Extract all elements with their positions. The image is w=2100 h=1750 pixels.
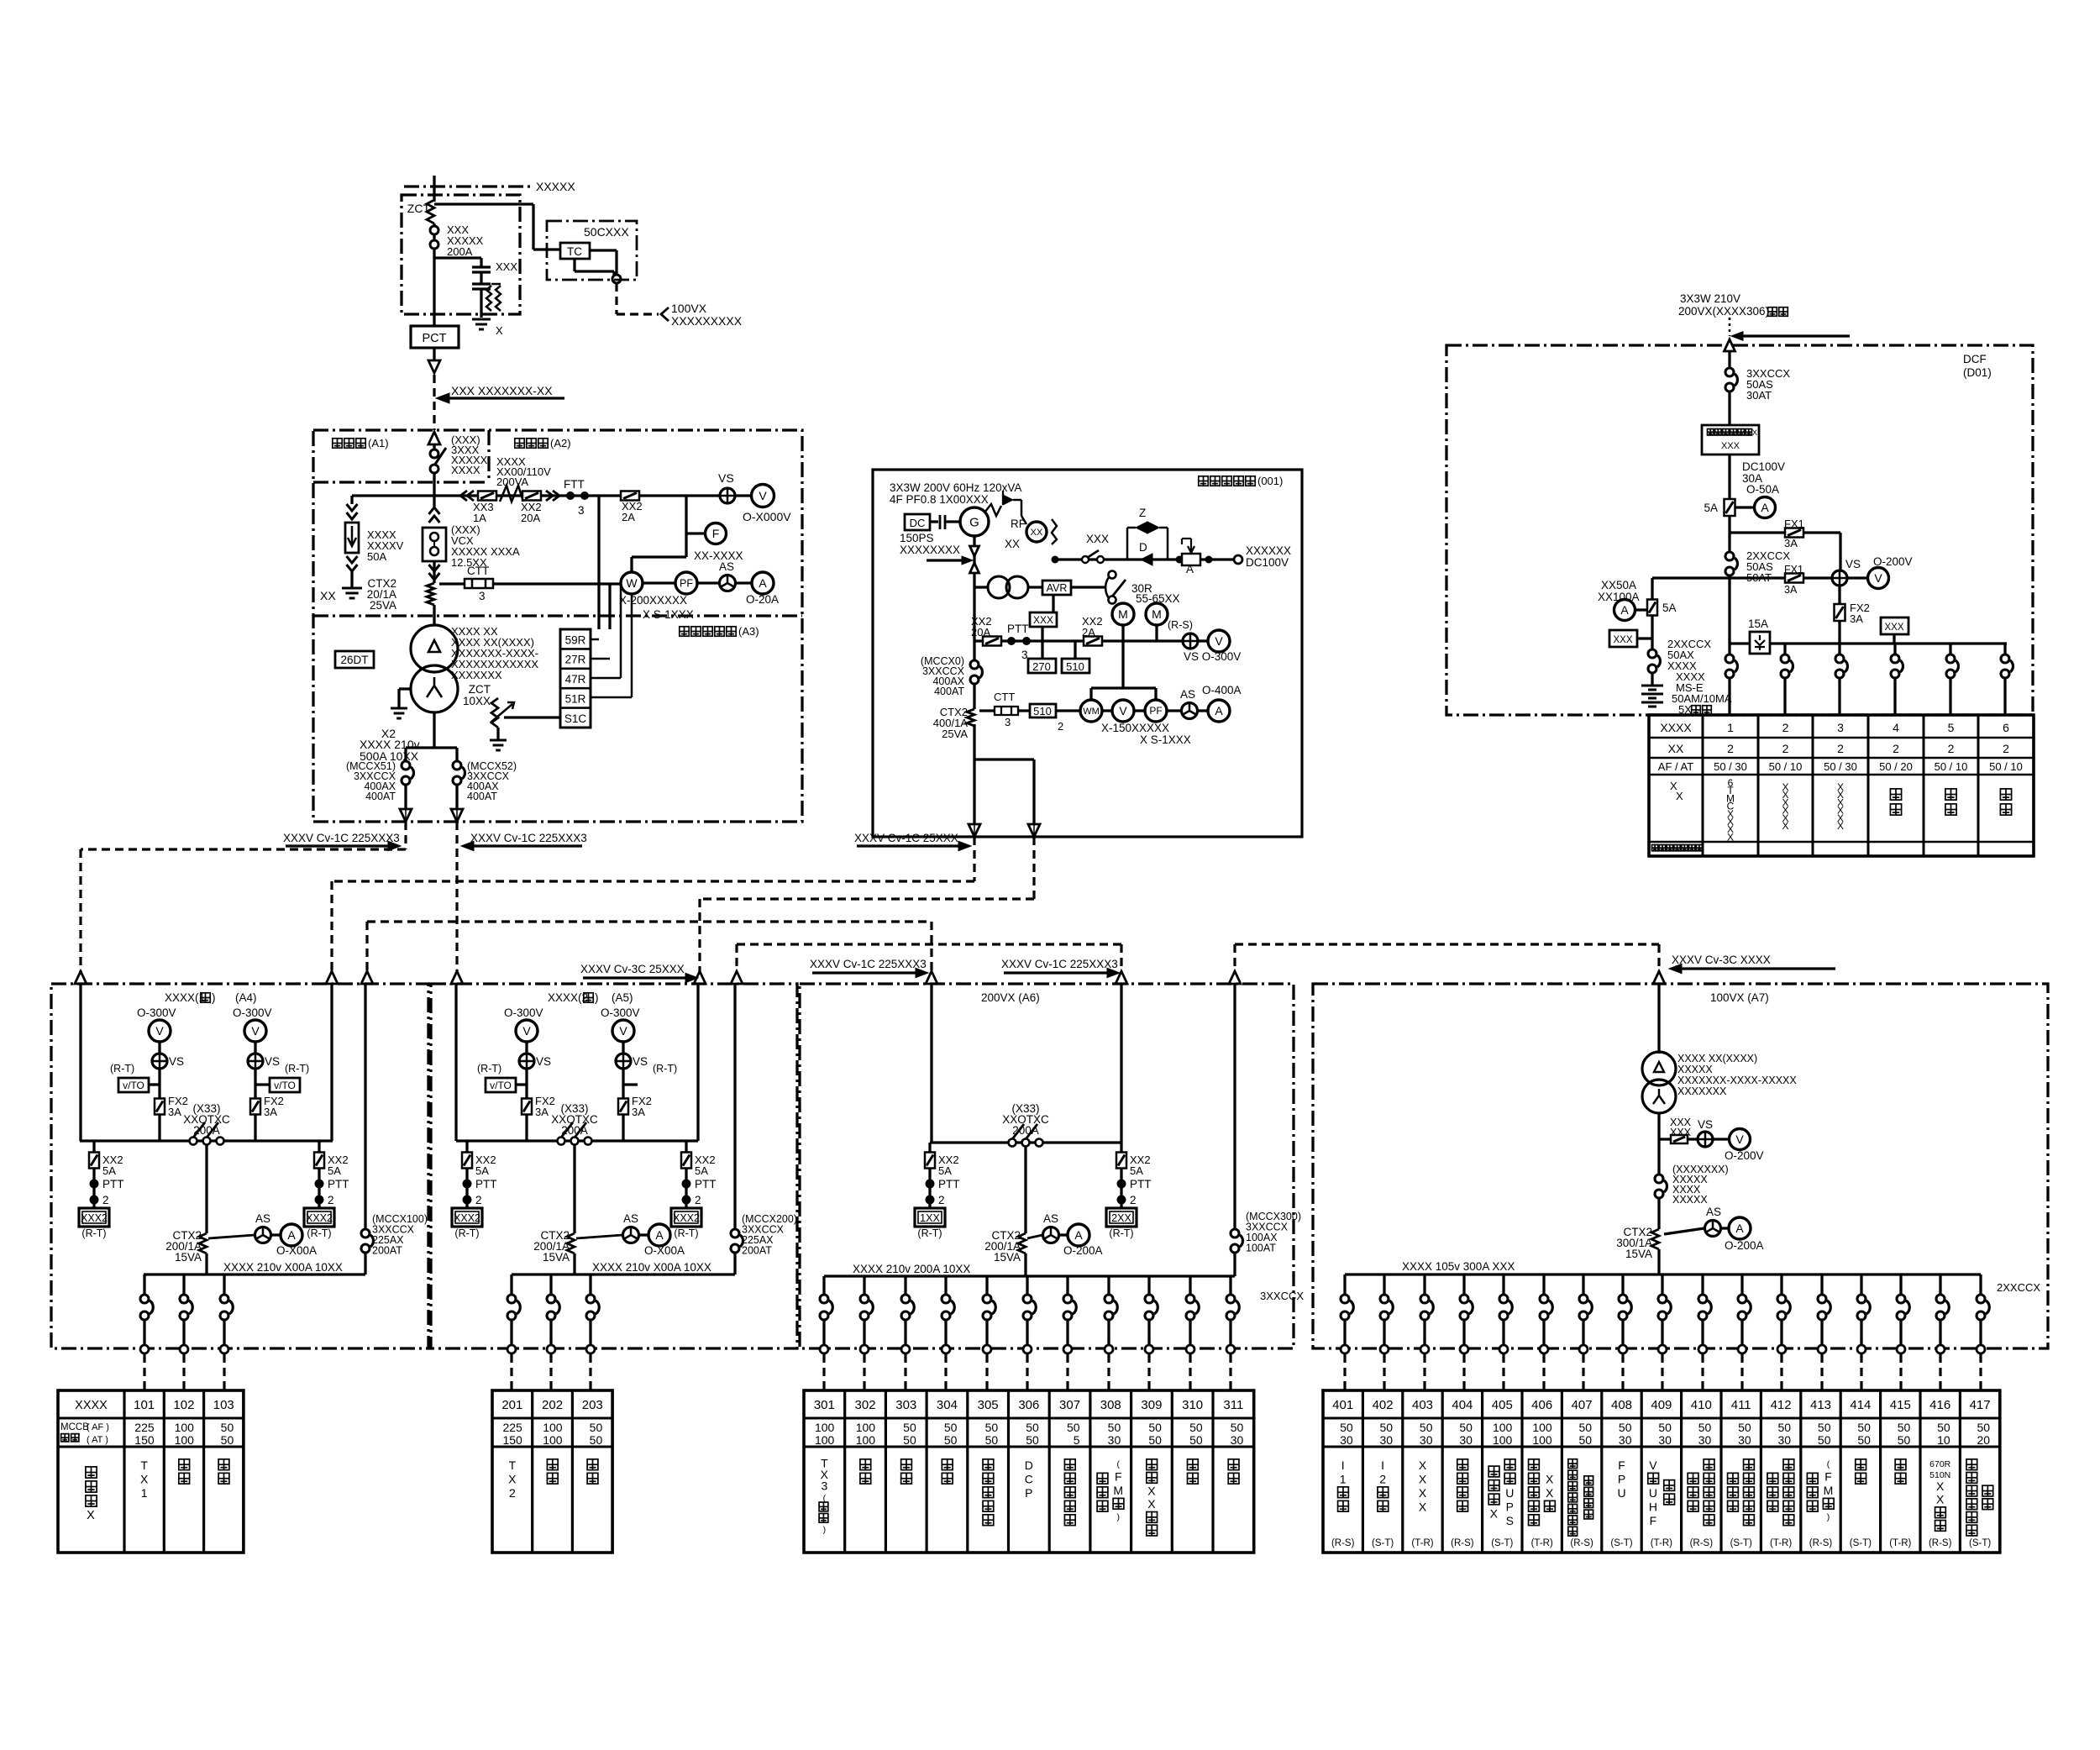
svg-text:XXXXXXXX: XXXXXXXX <box>900 544 960 556</box>
svg-text:5A: 5A <box>475 1164 489 1177</box>
svg-text:1: 1 <box>141 1486 148 1500</box>
svg-text:100: 100 <box>815 1421 835 1434</box>
svg-text:30: 30 <box>1619 1433 1632 1447</box>
svg-text:XXXV Cv-1C 225XXX3: XXXV Cv-1C 225XXX3 <box>1001 958 1118 970</box>
svg-text:V: V <box>522 1024 531 1038</box>
svg-text:5A: 5A <box>328 1164 341 1177</box>
svg-text:XXXV Cv-1C 225XXX3: XXXV Cv-1C 225XXX3 <box>810 958 927 970</box>
svg-text:30: 30 <box>1231 1433 1244 1447</box>
svg-text:X: X <box>1546 1472 1554 1485</box>
svg-text:): ) <box>823 1525 827 1535</box>
svg-text:I: I <box>1341 1458 1345 1472</box>
svg-text:406: 406 <box>1531 1398 1552 1412</box>
svg-text:F: F <box>1618 1458 1625 1472</box>
svg-text:ZCT: ZCT <box>407 202 431 215</box>
svg-text:51R: 51R <box>565 693 586 706</box>
svg-text:CTT: CTT <box>467 565 489 577</box>
svg-text:307: 307 <box>1059 1398 1080 1412</box>
svg-text:50: 50 <box>1977 1421 1991 1434</box>
svg-text:50: 50 <box>1658 1421 1672 1434</box>
svg-text:100: 100 <box>1493 1421 1513 1434</box>
svg-text:50: 50 <box>944 1433 958 1447</box>
svg-text:U: U <box>1505 1486 1514 1500</box>
svg-text:3: 3 <box>1837 721 1844 734</box>
svg-text:50: 50 <box>1026 1433 1039 1447</box>
svg-text:(S-T): (S-T) <box>1730 1538 1752 1548</box>
svg-text:A: A <box>655 1228 664 1242</box>
svg-text:(R-S): (R-S) <box>1929 1538 1952 1548</box>
svg-text:O-200A: O-200A <box>1063 1244 1103 1257</box>
svg-text:): ) <box>595 991 599 1004</box>
svg-text:XX: XX <box>1031 528 1043 538</box>
svg-text:50: 50 <box>1738 1421 1751 1434</box>
svg-text:100: 100 <box>856 1421 876 1434</box>
svg-text:50: 50 <box>1148 1433 1162 1447</box>
svg-text:15A: 15A <box>1748 617 1768 630</box>
svg-text:P: P <box>1025 1486 1032 1500</box>
svg-text:O-300V: O-300V <box>601 1006 640 1019</box>
svg-text:v/TO: v/TO <box>274 1080 296 1091</box>
svg-text:2: 2 <box>1837 742 1844 755</box>
svg-text:50: 50 <box>1778 1421 1792 1434</box>
svg-text:PTT: PTT <box>102 1178 124 1190</box>
svg-text:(T-R): (T-R) <box>1770 1538 1792 1548</box>
svg-text:V: V <box>1215 634 1223 648</box>
svg-text:30: 30 <box>1738 1433 1751 1447</box>
svg-text:XXXV Cv-1C 225XXX3: XXXV Cv-1C 225XXX3 <box>283 832 400 844</box>
svg-text:MCCB: MCCB <box>60 1422 89 1432</box>
svg-text:DCF: DCF <box>1963 353 1987 365</box>
svg-text:V: V <box>1649 1458 1657 1472</box>
svg-text:2: 2 <box>102 1194 109 1206</box>
svg-text:XXXXX: XXXXX <box>536 180 575 193</box>
svg-text:XX100A: XX100A <box>1598 591 1640 603</box>
svg-text:X S-1XXX: X S-1XXX <box>1140 733 1191 746</box>
svg-text:PF: PF <box>680 577 693 589</box>
svg-text:100: 100 <box>175 1421 195 1434</box>
svg-text:XXXXXX: XXXXXX <box>1246 544 1291 557</box>
svg-text:59R: 59R <box>565 633 586 646</box>
svg-text:416: 416 <box>1929 1398 1950 1412</box>
svg-text:310: 310 <box>1182 1398 1203 1412</box>
svg-text:(R-S): (R-S) <box>1451 1538 1474 1548</box>
svg-text:50: 50 <box>1108 1421 1121 1434</box>
svg-text:O-300V: O-300V <box>504 1006 543 1019</box>
svg-text:v/TO: v/TO <box>123 1080 144 1091</box>
svg-text:PTT: PTT <box>1130 1178 1152 1190</box>
svg-text:50: 50 <box>1937 1421 1950 1434</box>
svg-text:670R: 670R <box>1929 1459 1951 1469</box>
svg-text:4F PF0.8 1X00XXX: 4F PF0.8 1X00XXX <box>890 493 989 506</box>
svg-text:XXXX(1: XXXX(1 <box>165 991 205 1004</box>
svg-text:3A: 3A <box>1784 537 1798 549</box>
svg-text:F: F <box>1115 1469 1122 1483</box>
svg-text:(R-T): (R-T) <box>81 1227 106 1239</box>
svg-text:XXXX XX(XXXX): XXXX XX(XXXX) <box>1677 1053 1757 1064</box>
svg-text:XXXXXXX-XXXX-XXXXX: XXXXXXX-XXXX-XXXXX <box>1677 1075 1797 1086</box>
svg-text:5A: 5A <box>1704 502 1718 514</box>
svg-text:(T-R): (T-R) <box>1411 1538 1433 1548</box>
svg-text:3A: 3A <box>168 1106 181 1118</box>
svg-text:O-200A: O-200A <box>1725 1239 1764 1252</box>
svg-text:200VA: 200VA <box>496 476 528 488</box>
svg-text:X: X <box>1727 831 1734 843</box>
svg-text:10: 10 <box>1937 1433 1950 1447</box>
svg-text:X-200XXXXX: X-200XXXXX <box>619 594 687 607</box>
svg-text:100: 100 <box>1493 1433 1513 1447</box>
svg-text:30: 30 <box>1340 1433 1353 1447</box>
svg-text:M: M <box>1824 1484 1834 1497</box>
svg-text:F: F <box>1824 1469 1832 1483</box>
svg-text:XXX: XXX <box>496 260 517 273</box>
svg-text:2XXCCX: 2XXCCX <box>1997 1281 2040 1294</box>
svg-text:403: 403 <box>1412 1398 1433 1412</box>
svg-text:AS: AS <box>623 1212 638 1225</box>
svg-text:(T-R): (T-R) <box>1531 1538 1553 1548</box>
svg-text:27R: 27R <box>565 654 586 666</box>
svg-text:2A: 2A <box>1082 626 1095 639</box>
svg-text:3A: 3A <box>264 1106 277 1118</box>
svg-text:(R-T): (R-T) <box>454 1227 479 1239</box>
svg-text:202: 202 <box>542 1398 563 1412</box>
svg-text:Z: Z <box>1139 507 1146 519</box>
svg-text:5: 5 <box>1074 1433 1080 1447</box>
svg-text:20A: 20A <box>521 512 540 524</box>
svg-text:XXXXX: XXXXX <box>1672 1194 1708 1206</box>
svg-text:26DT: 26DT <box>340 654 368 666</box>
svg-text:2: 2 <box>1948 742 1955 755</box>
svg-text:XXXX 105v 300A XXX: XXXX 105v 300A XXX <box>1402 1260 1515 1273</box>
svg-text:2: 2 <box>1782 742 1789 755</box>
svg-text:(R-S): (R-S) <box>1331 1538 1355 1548</box>
svg-text:A: A <box>287 1228 296 1242</box>
svg-text:O-200V: O-200V <box>1725 1149 1764 1162</box>
svg-text:(A5): (A5) <box>612 991 633 1004</box>
svg-text:50 / 30: 50 / 30 <box>1714 760 1747 773</box>
svg-text:50: 50 <box>1067 1421 1080 1434</box>
svg-text:55-65XX: 55-65XX <box>1136 592 1180 605</box>
svg-text:S: S <box>1506 1514 1514 1527</box>
svg-text:PTT: PTT <box>695 1178 717 1190</box>
svg-text:50: 50 <box>1579 1421 1593 1434</box>
svg-text:100: 100 <box>175 1433 195 1447</box>
svg-text:A: A <box>1761 501 1769 514</box>
svg-text:(R-T): (R-T) <box>917 1227 942 1239</box>
svg-text:303: 303 <box>895 1398 916 1412</box>
svg-text:(R-T): (R-T) <box>1109 1227 1133 1239</box>
svg-text:O-20A: O-20A <box>746 593 779 606</box>
svg-text:309: 309 <box>1141 1398 1162 1412</box>
svg-text:50: 50 <box>1380 1421 1394 1434</box>
svg-text:XX50A: XX50A <box>1601 579 1636 591</box>
svg-text:100: 100 <box>1532 1421 1552 1434</box>
svg-text:304: 304 <box>937 1398 958 1412</box>
svg-text:O-X00A: O-X00A <box>644 1244 685 1257</box>
svg-text:U: U <box>1617 1486 1625 1500</box>
svg-text:X: X <box>1936 1479 1945 1493</box>
svg-text:PCT: PCT <box>423 332 447 345</box>
svg-text:(T-R): (T-R) <box>1889 1538 1911 1548</box>
svg-text:X: X <box>508 1472 517 1485</box>
svg-text:I: I <box>1381 1458 1384 1472</box>
svg-text:XXX2: XXX2 <box>673 1212 700 1224</box>
svg-text:A: A <box>1735 1222 1744 1235</box>
svg-text:417: 417 <box>1970 1398 1991 1412</box>
svg-text:VS: VS <box>169 1055 184 1068</box>
svg-text:(R-T): (R-T) <box>285 1063 309 1075</box>
svg-text:400AT: 400AT <box>934 686 964 697</box>
svg-text:15VA: 15VA <box>543 1251 570 1264</box>
svg-text:W: W <box>626 576 638 590</box>
svg-text:( AF ): ( AF ) <box>87 1422 109 1432</box>
svg-text:XXXX: XXXX <box>451 464 480 476</box>
svg-text:5A: 5A <box>938 1164 952 1177</box>
svg-text:A: A <box>1215 704 1223 717</box>
svg-text:O-400A: O-400A <box>1202 684 1242 696</box>
svg-text:1XX: 1XX <box>920 1212 940 1224</box>
svg-text:3: 3 <box>821 1479 827 1492</box>
svg-text:308: 308 <box>1100 1398 1121 1412</box>
svg-text:V: V <box>1735 1133 1744 1146</box>
svg-text:(R-T): (R-T) <box>653 1063 677 1075</box>
svg-text:150PS: 150PS <box>900 532 934 544</box>
svg-text:301: 301 <box>814 1398 835 1412</box>
svg-text:D: D <box>1139 541 1147 554</box>
svg-text:410: 410 <box>1691 1398 1712 1412</box>
svg-text:100: 100 <box>815 1433 835 1447</box>
svg-text:PTT: PTT <box>328 1178 349 1190</box>
svg-text:XXX: XXX <box>1721 441 1740 451</box>
svg-text:XXXXXXX: XXXXXXX <box>1677 1085 1727 1097</box>
svg-text:3X3W 200V 60Hz 120xVA: 3X3W 200V 60Hz 120xVA <box>890 481 1021 494</box>
svg-text:50: 50 <box>1189 1421 1203 1434</box>
svg-text:50: 50 <box>944 1421 958 1434</box>
svg-text:TC: TC <box>567 245 582 258</box>
svg-text:50: 50 <box>1898 1433 1911 1447</box>
svg-text:O-300V: O-300V <box>137 1006 176 1019</box>
svg-text:50: 50 <box>1619 1421 1632 1434</box>
svg-text:DC100V: DC100V <box>1742 460 1785 473</box>
svg-text:2: 2 <box>695 1194 701 1206</box>
svg-text:100: 100 <box>543 1433 563 1447</box>
svg-text:510: 510 <box>1033 705 1052 717</box>
svg-text:20: 20 <box>1977 1433 1991 1447</box>
svg-text:1: 1 <box>1727 721 1734 734</box>
svg-text:VS: VS <box>1845 558 1861 570</box>
svg-text:200A: 200A <box>561 1124 588 1137</box>
svg-text:V: V <box>759 489 767 502</box>
svg-text:V: V <box>619 1024 627 1038</box>
svg-text:AF / AT: AF / AT <box>1658 760 1693 773</box>
svg-text:50 / 20: 50 / 20 <box>1879 760 1913 773</box>
svg-text:(R-T): (R-T) <box>110 1063 134 1075</box>
svg-text:50: 50 <box>985 1433 999 1447</box>
svg-text:H: H <box>1649 1500 1657 1513</box>
svg-text:100VX (A7): 100VX (A7) <box>1710 991 1769 1004</box>
svg-text:103: 103 <box>213 1398 234 1412</box>
svg-text:X: X <box>1419 1458 1427 1472</box>
svg-text:P: P <box>1618 1472 1625 1485</box>
svg-text:50 / 10: 50 / 10 <box>1989 760 2023 773</box>
svg-text:405: 405 <box>1492 1398 1513 1412</box>
svg-text:20A: 20A <box>971 626 990 639</box>
svg-text:50: 50 <box>221 1421 234 1434</box>
svg-text:50: 50 <box>1857 1421 1871 1434</box>
svg-text:2: 2 <box>1782 721 1789 734</box>
svg-text:(D01): (D01) <box>1963 366 1992 379</box>
svg-text:401: 401 <box>1332 1398 1353 1412</box>
svg-text:XX: XX <box>1668 742 1684 755</box>
svg-text:3: 3 <box>578 504 585 517</box>
svg-text:407: 407 <box>1572 1398 1593 1412</box>
svg-text:XX: XX <box>1005 538 1020 550</box>
svg-text:200AT: 200AT <box>742 1245 772 1257</box>
svg-text:404: 404 <box>1452 1398 1473 1412</box>
svg-text:VS: VS <box>718 471 734 485</box>
svg-text:XX: XX <box>320 589 336 602</box>
svg-text:50: 50 <box>1818 1433 1831 1447</box>
svg-text:414: 414 <box>1850 1398 1871 1412</box>
svg-text:100VX: 100VX <box>671 302 707 315</box>
svg-text:5A: 5A <box>1662 602 1677 614</box>
svg-text:30: 30 <box>1108 1433 1121 1447</box>
svg-text:50: 50 <box>1579 1433 1593 1447</box>
svg-text:200A: 200A <box>193 1124 220 1137</box>
svg-text:(A1): (A1) <box>368 437 389 449</box>
svg-text:150: 150 <box>134 1433 155 1447</box>
svg-text:XXX: XXX <box>1086 533 1109 545</box>
svg-text:(R-S): (R-S) <box>1168 619 1193 631</box>
svg-text:50: 50 <box>1189 1433 1203 1447</box>
svg-text:200AT: 200AT <box>372 1245 402 1257</box>
svg-text:V: V <box>1874 571 1882 585</box>
svg-text:30AT: 30AT <box>1746 389 1772 402</box>
svg-text:5A: 5A <box>1130 1164 1143 1177</box>
svg-text:100: 100 <box>1532 1433 1552 1447</box>
svg-text:AS: AS <box>1180 688 1195 701</box>
svg-text:): ) <box>212 991 216 1004</box>
svg-text:S1C: S1C <box>564 712 587 725</box>
svg-text:50: 50 <box>1898 1421 1911 1434</box>
svg-text:XXXX: XXXX <box>75 1399 108 1412</box>
svg-text:(S-T): (S-T) <box>1850 1538 1872 1548</box>
svg-text:U: U <box>1649 1486 1657 1500</box>
svg-text:3A: 3A <box>632 1106 645 1118</box>
svg-text:O-300V: O-300V <box>233 1006 272 1019</box>
svg-text:(A2): (A2) <box>550 437 571 449</box>
svg-text:(R-T): (R-T) <box>674 1227 698 1239</box>
svg-text:X: X <box>1147 1485 1156 1498</box>
svg-text:XXX: XXX <box>1670 1127 1692 1138</box>
svg-text:50: 50 <box>1459 1421 1473 1434</box>
svg-text:X: X <box>1419 1486 1427 1500</box>
svg-text:V: V <box>1119 704 1127 717</box>
svg-text:30: 30 <box>1420 1433 1433 1447</box>
svg-text:PF: PF <box>1149 705 1162 717</box>
svg-text:50: 50 <box>1818 1421 1831 1434</box>
svg-text:50: 50 <box>590 1433 603 1447</box>
svg-text:408: 408 <box>1611 1398 1632 1412</box>
svg-text:47R: 47R <box>565 673 586 686</box>
svg-text:M: M <box>1118 607 1128 621</box>
svg-text:409: 409 <box>1651 1398 1672 1412</box>
svg-text:O-200V: O-200V <box>1873 555 1913 568</box>
svg-text:AS: AS <box>719 560 734 573</box>
svg-text:M: M <box>1152 607 1162 621</box>
svg-text:50A: 50A <box>367 550 386 563</box>
svg-text:CTT: CTT <box>994 691 1015 703</box>
svg-text:413: 413 <box>1810 1398 1831 1412</box>
svg-text:2: 2 <box>509 1486 516 1500</box>
svg-text:X: X <box>1837 820 1844 832</box>
svg-text:200A: 200A <box>1012 1124 1039 1137</box>
svg-text:3A: 3A <box>535 1106 549 1118</box>
svg-text:270: 270 <box>1032 660 1051 673</box>
svg-text:411: 411 <box>1731 1398 1751 1412</box>
svg-text:DC100V: DC100V <box>1246 556 1289 569</box>
svg-text:50 / 10: 50 / 10 <box>1769 760 1803 773</box>
svg-text:X: X <box>1782 820 1788 832</box>
svg-text:2: 2 <box>1130 1194 1137 1206</box>
svg-text:(R-S): (R-S) <box>1809 1538 1833 1548</box>
svg-text:2: 2 <box>328 1194 334 1206</box>
svg-text:D: D <box>1025 1458 1033 1472</box>
svg-text:306: 306 <box>1018 1398 1039 1412</box>
svg-text:AS: AS <box>1706 1206 1721 1218</box>
svg-text:X: X <box>87 1509 95 1522</box>
svg-text:XXXXXXXXX: XXXXXXXXX <box>671 314 743 328</box>
svg-text:A: A <box>1620 603 1629 617</box>
svg-text:50: 50 <box>1857 1433 1871 1447</box>
svg-text:2: 2 <box>2003 742 2009 755</box>
svg-text:XXXV Cv-3C XXXX: XXXV Cv-3C XXXX <box>1672 954 1771 966</box>
svg-text:C: C <box>1025 1472 1033 1485</box>
svg-text:302: 302 <box>855 1398 876 1412</box>
svg-text:(R-T): (R-T) <box>307 1227 331 1239</box>
svg-text:15VA: 15VA <box>175 1251 202 1264</box>
svg-text:200VX(XXXX306): 200VX(XXXX306) <box>1678 305 1769 318</box>
svg-text:O-X00A: O-X00A <box>276 1244 317 1257</box>
svg-text:VS: VS <box>1698 1118 1713 1131</box>
svg-text:225: 225 <box>134 1421 155 1434</box>
svg-text:XXXV Cv-1C 225XXX3: XXXV Cv-1C 225XXX3 <box>470 832 587 844</box>
svg-text:30: 30 <box>1778 1433 1792 1447</box>
svg-text:50: 50 <box>1340 1421 1353 1434</box>
svg-text:XXXX(2: XXXX(2 <box>548 991 588 1004</box>
svg-text:F: F <box>712 527 720 540</box>
svg-text:50: 50 <box>985 1421 999 1434</box>
svg-text:400AT: 400AT <box>365 791 396 802</box>
svg-text:2: 2 <box>1727 742 1734 755</box>
svg-text:A: A <box>759 576 767 590</box>
svg-text:201: 201 <box>501 1398 522 1412</box>
svg-text:VS: VS <box>536 1055 551 1068</box>
svg-text:AS: AS <box>1043 1212 1058 1225</box>
svg-text:T: T <box>140 1458 148 1472</box>
svg-text:4: 4 <box>1893 721 1899 734</box>
svg-text:2: 2 <box>1893 742 1899 755</box>
svg-text:25VA: 25VA <box>370 599 396 612</box>
svg-text:XXX: XXX <box>1033 614 1053 626</box>
svg-text:3XXCCX: 3XXCCX <box>1260 1290 1304 1302</box>
svg-text:15VA: 15VA <box>994 1251 1021 1264</box>
svg-text:305: 305 <box>978 1398 999 1412</box>
svg-text:): ) <box>1117 1512 1121 1522</box>
svg-text:10XX: 10XX <box>463 695 491 707</box>
svg-text:2: 2 <box>938 1194 945 1206</box>
svg-text:X: X <box>496 324 503 337</box>
svg-text:1A: 1A <box>473 512 486 524</box>
